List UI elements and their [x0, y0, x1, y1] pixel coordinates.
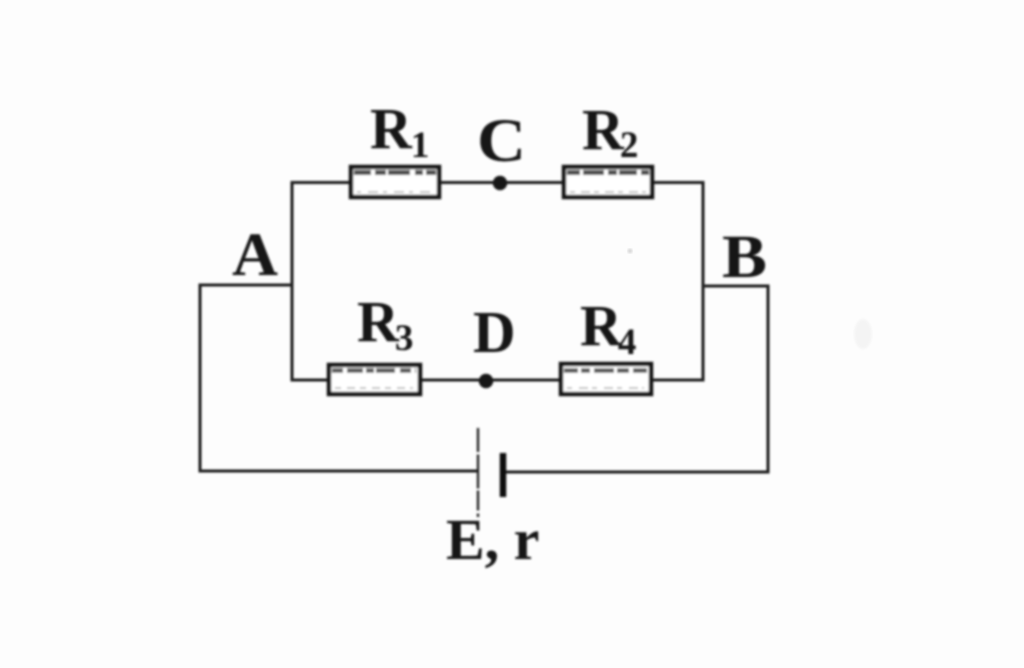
resistor R1 — [351, 167, 439, 197]
wire outer right vertical — [767, 285, 770, 474]
wire node A horizontal — [199, 284, 293, 287]
wire bottom branch left stub (A column to R3) — [291, 379, 330, 382]
wire top branch left stub (A column to R1) — [291, 181, 352, 184]
faint scan speck — [628, 249, 633, 254]
wire R4 to bottom-right corner — [651, 379, 705, 382]
wire outer left vertical — [199, 284, 202, 473]
svg-text:C: C — [477, 108, 526, 175]
battery short plate (negative) — [500, 453, 507, 497]
battery long plate (positive) — [477, 428, 479, 517]
wire R1 to R2 through node C — [439, 181, 564, 184]
wire bottom left to battery — [199, 470, 479, 473]
faint scan smudge right — [854, 319, 872, 349]
wire battery to bottom right — [506, 471, 770, 474]
wire inner right vertical (B junction column) — [702, 181, 705, 382]
wire R3 to R4 through node D — [420, 379, 561, 382]
resistor R2 — [564, 167, 652, 197]
svg-text:B: B — [722, 224, 767, 291]
resistor R3 — [329, 365, 420, 394]
svg-text:E, r: E, r — [446, 507, 539, 572]
node C junction dot — [493, 176, 507, 190]
wire R2 to top-right corner — [652, 181, 705, 184]
wire node B horizontal — [703, 285, 770, 288]
svg-text:D: D — [473, 299, 516, 365]
node D junction dot — [479, 374, 493, 388]
faint scan dashes bottom — [183, 576, 470, 579]
resistor R4 — [561, 364, 651, 394]
svg-text:A: A — [232, 222, 278, 289]
wire inner left vertical (A junction column) — [291, 181, 294, 382]
